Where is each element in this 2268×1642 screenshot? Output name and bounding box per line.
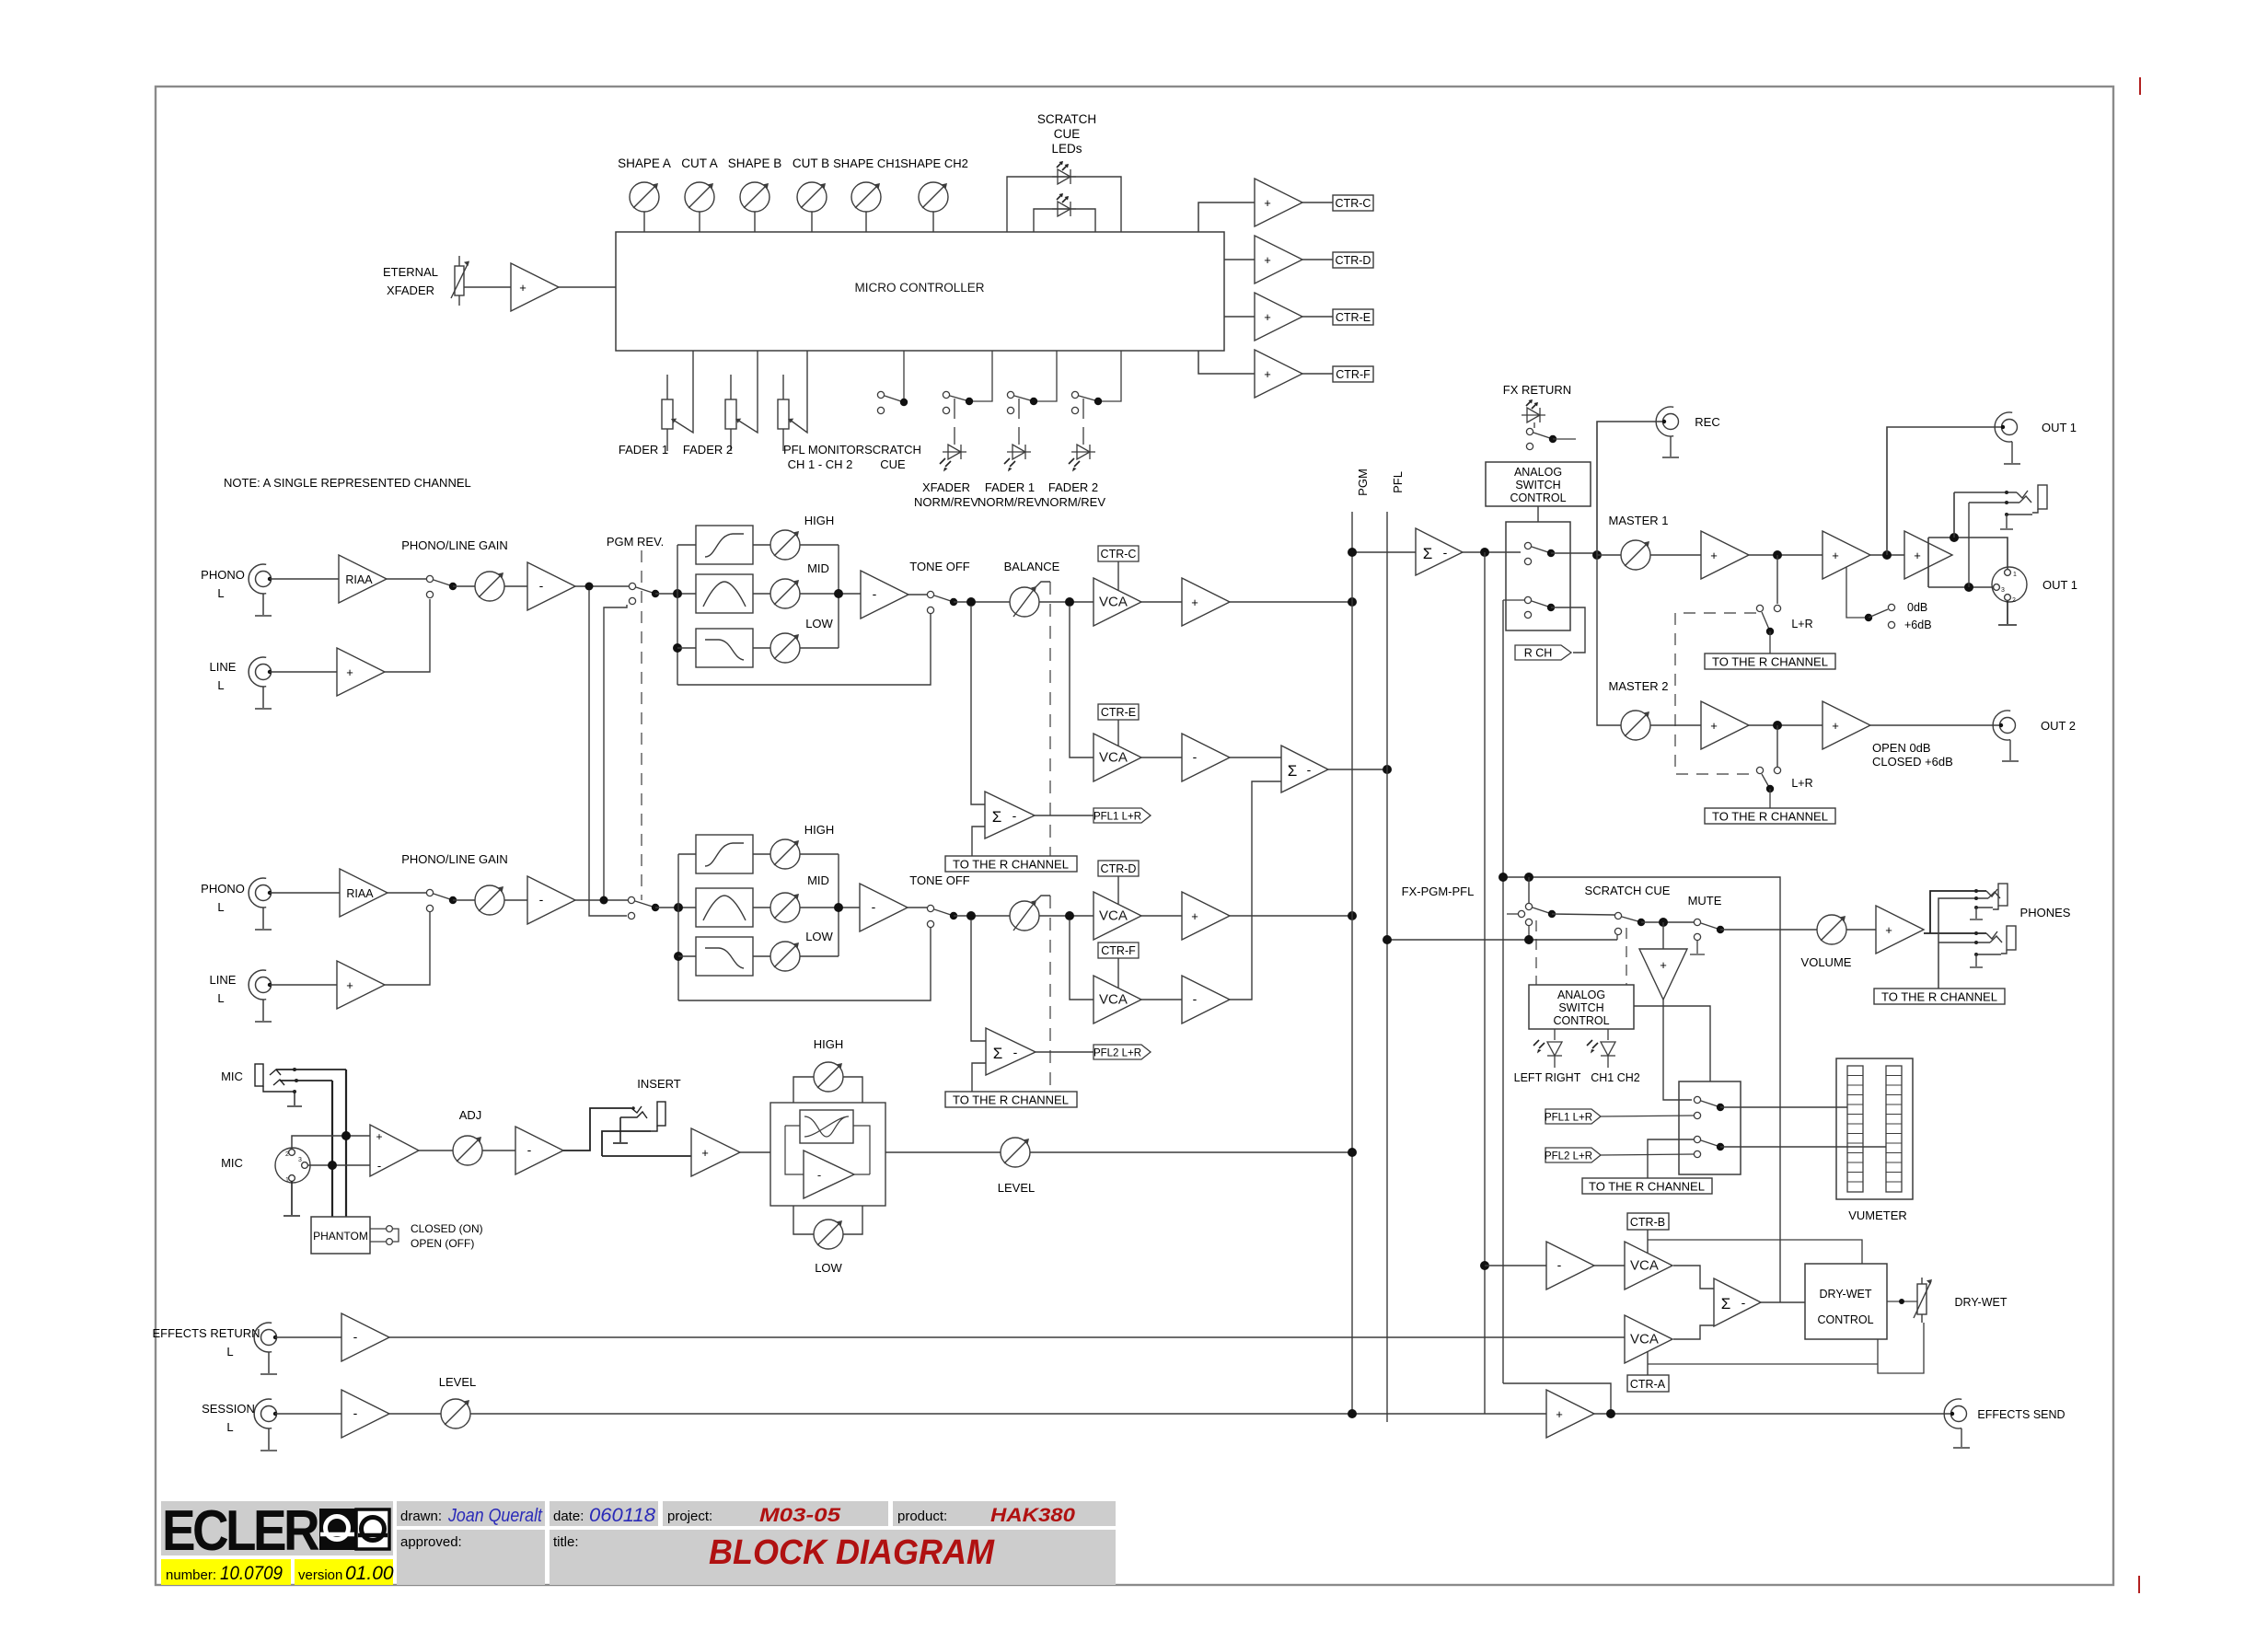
summing amp PFL1 sigma	[985, 792, 1035, 838]
wire switch2 to R CH tag	[1551, 607, 1585, 653]
wire junction to mix amp	[1662, 922, 1664, 949]
svg-text:RIAA: RIAA	[346, 887, 374, 900]
switch pgm rev ch2	[628, 896, 659, 919]
VCA ch1 fx (CTR-E)	[1093, 734, 1141, 781]
title block number cell	[161, 1559, 291, 1585]
wire phones jack1 tip riser	[1930, 891, 1986, 933]
op-amp phones	[1876, 906, 1924, 954]
svg-text:-: -	[1193, 749, 1198, 764]
wire op-amp to eq block	[740, 1151, 770, 1153]
wire PGM bus	[1351, 512, 1353, 1417]
svg-text:SHAPE A: SHAPE A	[618, 156, 671, 170]
svg-text:MASTER 2: MASTER 2	[1608, 679, 1668, 693]
svg-text:SCRATCH: SCRATCH	[864, 443, 921, 457]
net label CTR-D	[1098, 861, 1139, 876]
svg-text:2: 2	[285, 1151, 289, 1158]
svg-text:+: +	[1556, 1407, 1563, 1421]
op-amp gain ch1	[527, 562, 575, 610]
junction loop left	[1498, 873, 1508, 882]
svg-text:MASTER 1: MASTER 1	[1608, 514, 1668, 527]
op-amp pgm send ch2	[1182, 892, 1230, 940]
switch scratch cue	[877, 351, 908, 414]
svg-text:L: L	[226, 1345, 233, 1359]
svg-text:10.0709: 10.0709	[220, 1563, 283, 1584]
switch phantom on/off	[370, 1226, 399, 1245]
VCA ch1 L (CTR-C)	[1093, 578, 1141, 626]
wire vca-e to fx amp	[1141, 757, 1182, 758]
wire switch to gain pot ch1	[453, 585, 475, 587]
pot SHAPE CH1	[851, 182, 881, 212]
wire PFL to scratch row	[1387, 939, 1617, 941]
wire scratch loop top	[1503, 877, 1780, 1302]
svg-text:LEDs: LEDs	[1051, 142, 1082, 156]
op-amp eq sum ch2	[860, 884, 908, 931]
svg-text:-: -	[1307, 762, 1312, 777]
fader FADER 2	[725, 351, 758, 451]
svg-text:PGM: PGM	[1356, 468, 1370, 496]
title block title cell BLOCK DIAGRAM	[550, 1530, 1116, 1585]
filter block LOW ch1	[696, 629, 753, 667]
junction master1 mid	[1773, 550, 1782, 560]
svg-text:CONTROL: CONTROL	[1510, 491, 1566, 504]
fader FADER 1	[662, 351, 693, 451]
wire eq collector ch2	[838, 854, 839, 956]
wire eq op-amp to tone switch ch2	[908, 907, 927, 908]
svg-text:LINE: LINE	[210, 973, 237, 987]
wire op-amp to pgm rev switch ch1	[575, 585, 629, 587]
svg-text:OUT 1: OUT 1	[2042, 578, 2077, 592]
svg-text:1: 1	[2013, 572, 2017, 578]
wire low pot out ch1	[800, 647, 839, 649]
LED D1 scratch cue	[1052, 169, 1076, 184]
ground xlr out1	[1998, 601, 2017, 625]
svg-text:CUT A: CUT A	[681, 156, 718, 170]
wire ch1 to PGM bus	[1230, 601, 1352, 603]
wire master1 to L+R switch	[1776, 555, 1778, 604]
wire r channel to selector	[1648, 1139, 1694, 1178]
svg-text:CH1 CH2: CH1 CH2	[1591, 1071, 1640, 1084]
wire scratch out	[1641, 921, 1694, 923]
net label CTR-C	[1098, 546, 1139, 561]
wire dry amp to vca-b	[1594, 1265, 1625, 1266]
dashed gang line pgm rev	[641, 550, 642, 900]
svg-text:VOLUME: VOLUME	[1801, 955, 1852, 969]
wire high box to pot ch2	[753, 853, 770, 855]
connector OUT 1 RCA	[1995, 412, 2020, 464]
wire selector to scratch switch	[1552, 914, 1614, 915]
svg-text:product:: product:	[897, 1509, 947, 1524]
wire pfl2 sum lower input	[972, 1063, 986, 1092]
wire ctr-b to vca-b	[1647, 1230, 1649, 1254]
svg-text:drawn:: drawn:	[400, 1509, 442, 1524]
VCA B	[1625, 1242, 1672, 1289]
wire effects return bus to vca-a	[389, 1336, 1625, 1338]
svg-text:CONTROL: CONTROL	[1553, 1014, 1609, 1027]
wire low pot out ch2	[800, 955, 839, 957]
svg-text:BALANCE: BALANCE	[1004, 560, 1060, 573]
svg-text:SCRATCH CUE: SCRATCH CUE	[1585, 884, 1671, 897]
switch 0dB/+6dB	[1846, 567, 1895, 629]
svg-text:REC: REC	[1695, 415, 1719, 429]
pot LEVEL mic	[1001, 1138, 1030, 1167]
wire pfl1 sum input riser	[971, 606, 985, 804]
svg-text:approved:: approved:	[400, 1534, 462, 1550]
fader PFL MONITOR	[778, 351, 807, 451]
wire session op-amp to pot	[389, 1413, 441, 1415]
wire fx sum to PFL bus	[1328, 769, 1387, 770]
op-amp xfader buffer	[511, 263, 559, 311]
wire vca-b to dw sum	[1673, 1266, 1714, 1289]
svg-text:L: L	[226, 1420, 233, 1434]
box to the R channel master1	[1705, 653, 1835, 669]
wire pfl2 tag to selector	[1601, 1154, 1694, 1155]
title block ECLER logo panel	[161, 1499, 393, 1563]
wire riaa to switch ch2	[388, 892, 426, 894]
junction balance out ch1	[1065, 597, 1074, 607]
op-amp out1 driver	[1904, 531, 1952, 579]
jack PHONES 2	[1970, 926, 2016, 967]
svg-text:L+R: L+R	[1791, 618, 1812, 630]
wire switch to gain pot ch2	[453, 899, 475, 901]
wire tone out ch2	[954, 915, 1010, 917]
wire mix amp to selector box	[1663, 1000, 1692, 1100]
junction mic PGM	[1348, 1148, 1357, 1157]
junction low row ch2	[674, 952, 683, 961]
svg-text:TO THE R CHANNEL: TO THE R CHANNEL	[1712, 810, 1828, 824]
wire CUT B stem	[811, 212, 813, 232]
svg-text:HIGH: HIGH	[804, 514, 835, 527]
svg-text:PFL1 L+R: PFL1 L+R	[1545, 1113, 1592, 1124]
wire to master1 pot	[1597, 554, 1621, 556]
wire phono to RIAA ch2	[270, 892, 340, 894]
op-amp master2 b	[1822, 701, 1870, 749]
pot BALANCE ch1	[1010, 582, 1050, 617]
svg-text:SHAPE B: SHAPE B	[728, 156, 782, 170]
svg-text:VUMETER: VUMETER	[1848, 1208, 1907, 1222]
net tag R CH	[1515, 645, 1571, 660]
pot gain ch2	[475, 885, 504, 915]
pot SHAPE CH2	[919, 182, 948, 212]
jack INSERT	[602, 1102, 665, 1156]
svg-text:TO THE R CHANNEL: TO THE R CHANNEL	[1712, 655, 1828, 669]
box to the R channel ch2	[945, 1092, 1077, 1107]
pot LOW ch1	[770, 633, 800, 663]
svg-text:ADJ: ADJ	[459, 1108, 482, 1122]
op-amp RIAA ch2	[340, 869, 388, 917]
VCA A	[1625, 1315, 1672, 1363]
wire out1 cold	[1928, 586, 1994, 588]
svg-text:CTR-D: CTR-D	[1336, 254, 1371, 267]
LED left/right	[1533, 1029, 1562, 1068]
connector EFFECTS RETURN	[254, 1323, 277, 1374]
net label CTR-F	[1098, 942, 1139, 958]
net label CTR-D	[1333, 252, 1373, 268]
svg-text:OUT 2: OUT 2	[2041, 719, 2076, 733]
svg-text:ECLER: ECLER	[162, 1499, 319, 1563]
ground xlr pin1	[283, 1181, 300, 1216]
svg-text:PFL2 L+R: PFL2 L+R	[1545, 1151, 1592, 1162]
wire SHAPE CH1 stem	[865, 212, 867, 232]
svg-text:-: -	[1741, 1295, 1746, 1310]
pot HIGH ch2	[770, 839, 800, 869]
wire ctr-a to vca-a	[1647, 1351, 1649, 1375]
wire fx ch2 to sum riser	[1230, 781, 1281, 1000]
svg-text:L: L	[217, 678, 224, 692]
wire mic to insert send	[563, 1108, 631, 1151]
wire to high filter ch2	[678, 853, 696, 855]
svg-text:+: +	[1264, 253, 1271, 267]
connector PHONO L ch2	[249, 878, 272, 930]
junction out1 node	[1882, 550, 1892, 560]
junction out1 cold	[1964, 583, 1973, 592]
pot MASTER 1	[1621, 540, 1650, 570]
switch L+R master2	[1756, 767, 1780, 808]
svg-text:FADER 2: FADER 2	[1048, 480, 1098, 494]
op-amp fx ch1	[1182, 734, 1230, 781]
junction out1 hot	[1950, 533, 1959, 542]
svg-text:SHAPE CH1: SHAPE CH1	[833, 156, 901, 170]
pot MID ch1	[770, 579, 800, 608]
junction master row	[1592, 550, 1602, 560]
wire pot to op-amp ch1	[504, 585, 527, 587]
filter block MID ch1	[696, 574, 753, 613]
svg-text:SWITCH: SWITCH	[1558, 1001, 1603, 1014]
svg-text:-: -	[353, 1329, 358, 1344]
svg-text:TO THE R CHANNEL: TO THE R CHANNEL	[1881, 990, 1997, 1004]
svg-text:Σ: Σ	[1721, 1295, 1731, 1312]
wire ctr-f to vca	[1117, 958, 1119, 988]
wire line to op-amp ch2	[270, 984, 337, 986]
wire SHAPE CH2 stem	[932, 212, 934, 232]
junction master sum out	[1480, 548, 1489, 557]
svg-text:Σ: Σ	[1288, 762, 1298, 780]
filter block HIGH ch2	[696, 835, 753, 873]
wire pot to op-amp ch2	[504, 899, 527, 901]
connector SESSION	[254, 1399, 277, 1451]
VCA ch2 L (CTR-D)	[1093, 892, 1141, 940]
svg-text:CLOSED +6dB: CLOSED +6dB	[1872, 755, 1953, 769]
svg-text:PHONO/LINE GAIN: PHONO/LINE GAIN	[401, 852, 508, 866]
svg-text:+6dB: +6dB	[1904, 619, 1932, 631]
net label CTR-E	[1333, 309, 1373, 325]
summing amp dry-wet sigma	[1714, 1278, 1761, 1326]
svg-text:060118: 060118	[589, 1505, 655, 1526]
wire dry-wet return loop	[1878, 1323, 1924, 1373]
wire CUT A stem	[699, 212, 700, 232]
junction eq input ch2	[674, 903, 683, 912]
wire fx-pgm bus bend to send	[1503, 1383, 1611, 1410]
box to the R channel ch1	[945, 856, 1077, 872]
red registration tick top right	[2139, 77, 2141, 95]
net tag PFL2 L+R in	[1545, 1148, 1601, 1162]
wire ctr-e to vca	[1117, 720, 1119, 746]
wire ch2 to PGM bus	[1230, 915, 1352, 917]
wire ch1 out down to ch2 swap switch	[589, 590, 627, 916]
switch fader2 norm/rev	[1071, 351, 1121, 445]
pot LEVEL session	[441, 1399, 470, 1428]
svg-text:PFL1 L+R: PFL1 L+R	[1093, 812, 1141, 823]
junction scratch out	[1659, 918, 1668, 927]
wire to dry amp	[1485, 1265, 1546, 1266]
svg-text:PHONO/LINE GAIN: PHONO/LINE GAIN	[401, 538, 508, 552]
title block project cell	[663, 1501, 888, 1526]
wire master sum to switch box	[1463, 551, 1521, 553]
op-amp CTR-F driver	[1198, 350, 1333, 398]
svg-text:+: +	[1264, 196, 1271, 210]
junction tone out ch2	[966, 911, 976, 920]
op-amp master2 a	[1701, 701, 1749, 749]
svg-text:LOW: LOW	[815, 1261, 842, 1275]
box analog switch control master	[1486, 462, 1591, 506]
summing amp FX sigma	[1281, 746, 1328, 792]
junction PGM sum tap	[1348, 548, 1357, 557]
svg-text:CONTROL: CONTROL	[1817, 1313, 1873, 1326]
svg-text:R CH: R CH	[1524, 647, 1553, 660]
svg-text:+: +	[1710, 549, 1718, 562]
wire balance out ch2	[1039, 915, 1093, 917]
wire master2 to L+R switch	[1776, 725, 1778, 767]
svg-text:3: 3	[298, 1157, 302, 1163]
wire line to op-amp	[270, 671, 337, 673]
svg-text:LEVEL: LEVEL	[998, 1181, 1035, 1195]
pot CUT A	[685, 182, 714, 212]
wire out1 hot	[1928, 538, 2008, 570]
svg-text:PFL2 L+R: PFL2 L+R	[1093, 1048, 1141, 1059]
svg-text:L: L	[217, 900, 224, 914]
svg-text:RIAA: RIAA	[345, 573, 373, 586]
wire vca to pgm amp ch2	[1141, 915, 1182, 917]
wire xfader to op-amp	[464, 286, 511, 288]
op-amp session	[341, 1390, 389, 1438]
switch pgm rev ch1	[629, 583, 659, 604]
connector PHONO L ch1	[249, 564, 272, 616]
wire mid pot out ch2	[800, 907, 860, 908]
switch xfader norm/rev	[943, 351, 992, 445]
filter block LOW ch2	[696, 937, 753, 976]
wire ctr-a node to dry-wet return	[1648, 1363, 1878, 1365]
svg-text:ANALOG: ANALOG	[1514, 466, 1562, 479]
switch master source 1	[1524, 542, 1555, 564]
net tag PFL2 L+R	[1093, 1045, 1151, 1059]
title block product cell	[893, 1501, 1116, 1526]
wire ctr-b node to dry-wet box	[1648, 1240, 1862, 1264]
summing amp PFL2 sigma	[986, 1028, 1036, 1075]
svg-text:MICRO CONTROLLER: MICRO CONTROLLER	[854, 281, 984, 295]
svg-text:+: +	[1885, 923, 1892, 937]
wire line op-amp to switch ch1	[385, 599, 430, 672]
red registration tick bottom right	[2138, 1576, 2140, 1593]
svg-text:+: +	[346, 978, 353, 992]
wire phones ring jack2	[1938, 942, 1990, 943]
wire master2 feed	[1597, 555, 1621, 725]
title block drawn cell	[397, 1501, 545, 1526]
wire master1 to out stage	[1870, 554, 1904, 556]
box pfl selector	[1679, 1081, 1741, 1174]
filter block HIGH ch1	[696, 526, 753, 564]
pot MASTER 2	[1621, 711, 1650, 740]
wire control to switch box	[1537, 506, 1539, 522]
wire scratch cue LED1 loop	[1007, 177, 1121, 232]
wire eq collector ch1	[838, 545, 839, 648]
wire eq input riser ch1	[677, 545, 678, 685]
fader DRY-WET	[1914, 1278, 1932, 1323]
wire vca-f input riser	[1070, 919, 1093, 1000]
title block version cell	[295, 1559, 394, 1585]
wire phono to RIAA	[270, 578, 339, 580]
svg-text:PFL: PFL	[1391, 471, 1405, 493]
junction fx send tap	[1480, 1261, 1489, 1270]
switch phono/line ch1	[426, 575, 457, 597]
svg-text:LEFT RIGHT: LEFT RIGHT	[1514, 1071, 1581, 1084]
junction eq collector ch1	[834, 589, 843, 598]
wire scratch drop	[1528, 877, 1530, 903]
wire SHAPE A stem	[643, 212, 645, 232]
wire pfl2 sum input riser	[971, 919, 986, 1041]
wire pgm rev to eq ch1	[655, 593, 696, 595]
op-amp line buffer ch1	[337, 648, 385, 696]
wire fx-pgm-pfl right bus	[1502, 600, 1504, 1383]
svg-text:BLOCK DIAGRAM: BLOCK DIAGRAM	[709, 1533, 995, 1572]
junction effects send	[1606, 1409, 1615, 1418]
svg-text:number:: number:	[166, 1567, 216, 1583]
pot SHAPE B	[740, 182, 769, 212]
wire high pot loop mic	[793, 1077, 862, 1103]
svg-text:0dB: 0dB	[1907, 601, 1927, 614]
wire session to effects send amp	[470, 1413, 1546, 1415]
junction scratch pfl	[1524, 935, 1533, 944]
svg-text:+: +	[376, 1130, 382, 1143]
wire preamp to adj pot	[419, 1150, 453, 1151]
wire high box to pot ch1	[753, 544, 770, 546]
connector MIC XLR	[275, 1148, 310, 1184]
wire phones ring bus	[1938, 898, 1988, 989]
junction low row ch1	[673, 643, 682, 653]
svg-text:+: +	[1264, 310, 1271, 324]
dashed wire balance to R channel ch2	[1049, 896, 1051, 1092]
svg-text:version: version	[298, 1567, 342, 1583]
svg-text:FADER 2: FADER 2	[683, 443, 733, 457]
svg-text:TO THE R CHANNEL: TO THE R CHANNEL	[953, 858, 1069, 872]
junction eq collector ch2	[834, 903, 843, 912]
filter block MID ch2	[696, 888, 753, 927]
op-amp master1 a	[1701, 531, 1749, 579]
wire pfl1 tag to selector	[1601, 1116, 1694, 1116]
svg-text:CTR-F: CTR-F	[1101, 944, 1136, 957]
svg-text:-: -	[353, 1405, 358, 1420]
wire PGM to master sum	[1352, 551, 1416, 553]
wire volume to phones amp	[1846, 929, 1876, 931]
svg-text:CH 1 - CH 2: CH 1 - CH 2	[788, 457, 853, 471]
box DRY-WET CONTROL	[1805, 1264, 1887, 1339]
wire low pot loop mic	[793, 1206, 862, 1234]
svg-text:TO THE R CHANNEL: TO THE R CHANNEL	[953, 1093, 1069, 1107]
svg-text:EFFECTS RETURN: EFFECTS RETURN	[153, 1326, 260, 1340]
svg-text:CTR-A: CTR-A	[1630, 1378, 1666, 1391]
svg-text:FADER 1: FADER 1	[619, 443, 668, 457]
wire master2 to out2	[1870, 724, 1999, 726]
wire pfl1 sum to tag	[1035, 815, 1093, 816]
op-amp eq sum ch1	[861, 571, 908, 619]
summing amp master sigma	[1416, 528, 1463, 575]
svg-text:LINE: LINE	[210, 660, 237, 674]
wire master1 pot to amp	[1650, 554, 1701, 556]
wire block to level pot	[885, 1151, 1001, 1153]
svg-text:+: +	[1191, 596, 1198, 609]
junction pin3 ring feed	[328, 1161, 337, 1170]
wire ctr-c to vca	[1117, 561, 1119, 590]
wire op-amp to pgm rev switch ch2	[575, 899, 628, 901]
svg-text:LOW: LOW	[805, 930, 833, 943]
